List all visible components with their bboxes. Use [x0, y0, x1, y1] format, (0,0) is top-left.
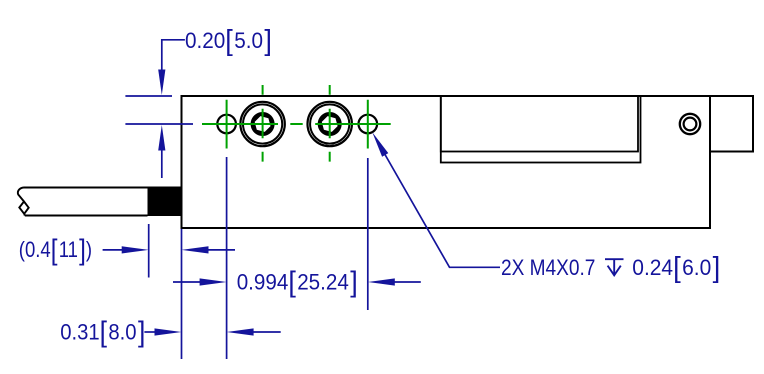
svg-text:0.994[25.24]: 0.994[25.24] — [237, 266, 358, 298]
svg-text:2X M4X0.7: 2X M4X0.7 — [501, 256, 595, 281]
svg-text:0.24[6.0]: 0.24[6.0] — [632, 250, 720, 283]
svg-text:0.31[8.0]: 0.31[8.0] — [60, 315, 145, 347]
svg-text:0.20[5.0]: 0.20[5.0] — [185, 24, 272, 56]
svg-text:(0.4[11]): (0.4[11]) — [19, 233, 92, 266]
